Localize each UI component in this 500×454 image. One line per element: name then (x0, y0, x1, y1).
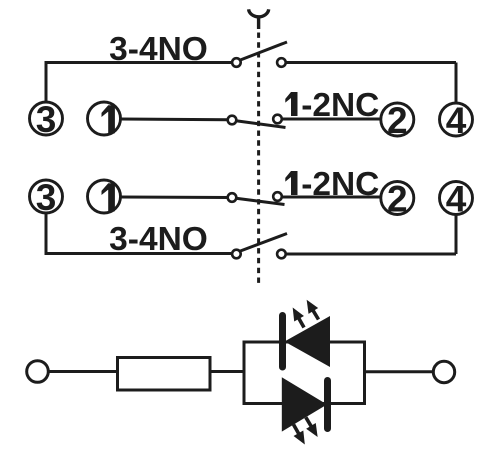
svg-text:2: 2 (387, 178, 408, 219)
label 1-2NC (bottom) : digit 1 drawn as path (no foot serif) (285, 171, 297, 195)
wire: vertical from terminal 3 to top NO row (45, 63, 48, 103)
terminal 3 (lower) (30, 180, 63, 213)
contact circle NO-bottom left (232, 250, 241, 259)
actuator plunger symbol (249, 9, 269, 17)
contact circle NC-top right (273, 115, 282, 124)
switch arm NO top (239, 42, 287, 61)
svg-text:2: 2 (387, 100, 408, 141)
wire: from lower terminal 1 to NC-bottom contact (120, 196, 229, 200)
wire: vertical from lower terminal 3 down to bottom NO row (45, 213, 48, 254)
svg-text:4: 4 (446, 100, 467, 141)
LED D2 triangle (282, 377, 327, 431)
wire: bottom NO row left horizontal (45, 252, 232, 255)
terminal 1 (lower) (88, 180, 121, 213)
contact circle NO-top right (277, 58, 286, 67)
contact circle NO-bottom right (277, 250, 286, 259)
terminal 2 (lower) (381, 182, 414, 215)
LED parallel block box (244, 342, 365, 404)
LED D2 emission arrow b (289, 422, 310, 448)
terminal 3 (upper) (30, 102, 63, 135)
wire: top NO row left horizontal (45, 61, 232, 64)
svg-text:3: 3 (36, 99, 57, 140)
terminal 4 (lower) (440, 182, 473, 215)
switch arm NC top (234, 121, 286, 128)
LED indicator terminal right (433, 361, 454, 382)
LED D2 cathode bar (324, 381, 331, 429)
wire: vertical down to terminal 4 (top) (455, 63, 458, 104)
LED indicator terminal left (27, 361, 49, 383)
contact circle NC-top left (228, 116, 237, 125)
contact circle NC-bottom left (228, 193, 237, 202)
wire: from terminal 1 to NC-top contact (120, 118, 229, 122)
wire: resistor to LED block (210, 370, 244, 373)
contact circle NO-top left (232, 58, 241, 67)
wire: NC-top to terminal 2 (282, 118, 382, 121)
contact circle NC-bottom right (273, 192, 282, 201)
terminal 2 (upper) (381, 103, 414, 136)
svg-text:4: 4 (446, 178, 467, 219)
wire: bottom NO row right horizontal (286, 253, 456, 256)
label 1-2NC (top) : digit 1 drawn as path (no foot serif) (285, 92, 297, 116)
svg-text:3: 3 (36, 177, 57, 218)
svg-text:-2NC: -2NC (301, 87, 379, 124)
wire: LED block to right terminal (365, 370, 434, 373)
wire: NC-bottom to lower terminal 2 (282, 196, 382, 199)
actuator stem (257, 17, 260, 30)
terminal 1 (upper) (88, 102, 121, 135)
actuator dotted coupling line (257, 33, 260, 284)
LED D1 cathode bar (279, 316, 286, 368)
svg-text:-2NC: -2NC (301, 166, 379, 203)
wire: top NO row right horizontal (286, 61, 456, 64)
switch arm NC bottom (234, 198, 285, 205)
LED D1 triangle (285, 316, 331, 367)
LED D1 emission arrow b (302, 297, 323, 322)
terminal 4 (upper) (440, 103, 473, 136)
wire: vertical up to lower terminal 4 (455, 214, 458, 254)
LED D1 emission arrow a (288, 305, 309, 331)
LED D2 emission arrow a (301, 414, 322, 439)
wire: left terminal to resistor (48, 370, 117, 373)
switch arm NO bottom (239, 234, 287, 252)
resistor R (118, 358, 211, 391)
